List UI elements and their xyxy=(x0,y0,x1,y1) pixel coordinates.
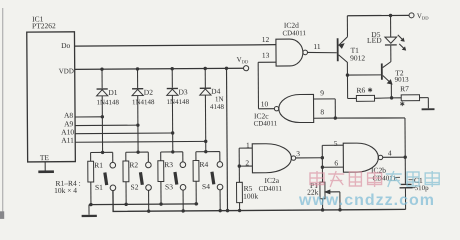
svg-text:S4: S4 xyxy=(202,182,210,191)
svg-text:R2: R2 xyxy=(129,160,138,169)
svg-text:IC2a: IC2a xyxy=(264,176,279,185)
svg-text:1N4148: 1N4148 xyxy=(132,98,155,106)
svg-text:D2: D2 xyxy=(144,88,153,97)
svg-text:S3: S3 xyxy=(165,182,173,191)
svg-text:www.cndzz.com: www.cndzz.com xyxy=(298,192,435,209)
svg-text:9012: 9012 xyxy=(350,53,365,62)
svg-text:10k × 4: 10k × 4 xyxy=(54,186,77,195)
svg-text:D1: D1 xyxy=(108,88,117,97)
svg-text:100k: 100k xyxy=(243,192,258,201)
svg-text:9: 9 xyxy=(320,88,324,97)
svg-text:DD: DD xyxy=(422,16,429,21)
svg-text:D3: D3 xyxy=(178,87,187,96)
svg-text:VDD: VDD xyxy=(59,67,74,75)
svg-text:CD4011: CD4011 xyxy=(254,119,278,127)
svg-text:9013: 9013 xyxy=(395,76,410,84)
svg-text:PT2262: PT2262 xyxy=(32,21,56,30)
svg-text:S1: S1 xyxy=(95,183,103,192)
svg-text:1N4148: 1N4148 xyxy=(96,98,119,106)
svg-text:R3: R3 xyxy=(164,160,173,169)
svg-text:4148: 4148 xyxy=(210,103,225,111)
svg-text:R6: R6 xyxy=(356,86,365,95)
svg-text:TE: TE xyxy=(40,153,50,162)
svg-text:LED: LED xyxy=(367,36,382,45)
svg-text:Do: Do xyxy=(61,41,70,50)
svg-text:R4: R4 xyxy=(199,160,208,169)
svg-text:6: 6 xyxy=(334,158,338,167)
svg-text:R1: R1 xyxy=(94,161,103,170)
svg-text:DD: DD xyxy=(242,59,249,64)
svg-text:CD4011: CD4011 xyxy=(259,185,283,193)
svg-text:1N4148: 1N4148 xyxy=(167,98,190,106)
svg-text:5: 5 xyxy=(334,139,338,148)
svg-text:CD4011: CD4011 xyxy=(282,29,306,37)
svg-text:S2: S2 xyxy=(131,183,139,192)
svg-text:3: 3 xyxy=(296,149,300,158)
svg-text:4: 4 xyxy=(388,148,392,157)
svg-text:13: 13 xyxy=(262,51,270,60)
svg-text:11: 11 xyxy=(313,42,321,51)
svg-text:R7: R7 xyxy=(400,84,409,93)
svg-text:A11: A11 xyxy=(61,136,74,145)
svg-text:10: 10 xyxy=(261,99,269,108)
svg-text:8: 8 xyxy=(320,107,324,116)
svg-text:12: 12 xyxy=(262,35,270,44)
